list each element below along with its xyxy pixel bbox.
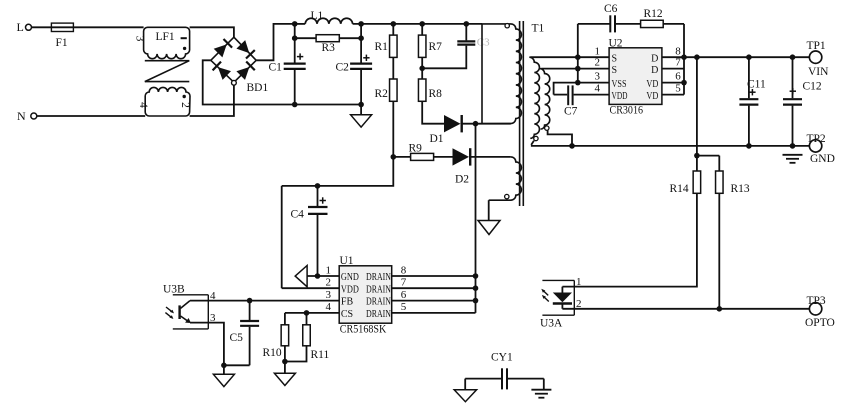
svg-text:R11: R11	[311, 349, 330, 361]
svg-text:DRAIN: DRAIN	[366, 309, 391, 320]
resistor R8	[418, 79, 442, 101]
ground U3B	[213, 374, 234, 386]
wire VDD vertical	[281, 186, 283, 288]
wire U1 FB line	[190, 300, 339, 302]
wire D2 cathode to aux winding	[470, 156, 510, 158]
op-amp U2 CR3016 box	[609, 37, 662, 116]
wire R13 bottom	[718, 193, 720, 308]
U2 pin 4 number	[595, 83, 601, 95]
U1 pin 6 number	[401, 289, 407, 301]
resistor R9	[393, 143, 452, 161]
bridge rectifier BD1 outline	[211, 37, 269, 94]
node VSS	[575, 80, 581, 86]
svg-text:2: 2	[595, 57, 601, 69]
wire CY1 left stub	[464, 379, 466, 390]
U1 pin 4 number	[326, 301, 332, 313]
svg-text:D: D	[651, 53, 658, 64]
node R14 top	[694, 153, 700, 159]
ground under C12	[783, 155, 803, 163]
wire top rail left	[295, 23, 306, 25]
earth CY1 right	[531, 390, 551, 398]
svg-text:R14: R14	[670, 183, 689, 195]
node R7 top	[419, 21, 425, 27]
U1 pin 2 number	[326, 277, 332, 289]
svg-text:FB: FB	[341, 297, 354, 308]
svg-text:TP2: TP2	[807, 133, 826, 145]
wire U1 VDD line	[282, 287, 340, 289]
svg-text:DRAIN: DRAIN	[366, 297, 391, 308]
wire U1 pin7 line	[392, 287, 476, 289]
capacitor C12	[783, 57, 822, 146]
U2 pin name S2	[612, 65, 618, 76]
svg-text:CY1: CY1	[491, 352, 513, 364]
node R3 right	[358, 35, 364, 41]
resistor R7	[418, 24, 442, 58]
wire U1 pin5 line	[392, 312, 476, 314]
wire R7-R8	[421, 57, 423, 79]
U1 pin name FB	[341, 297, 354, 308]
capacitor C4	[291, 186, 328, 276]
U2 pin name VD5	[646, 91, 658, 102]
svg-text:2: 2	[326, 277, 332, 289]
wire U3B emitter to ground	[190, 323, 224, 366]
svg-text:GND: GND	[810, 153, 835, 165]
bridge diode top-left	[214, 39, 232, 57]
U1 pin 5 number	[401, 301, 407, 313]
resistor R10	[263, 313, 289, 359]
svg-text:TP1: TP1	[807, 40, 826, 52]
svg-text:CR3016: CR3016	[610, 102, 644, 116]
wire bridge plus to top rail	[256, 24, 295, 60]
U2 pin name VSS	[612, 79, 627, 90]
svg-text:D1: D1	[430, 133, 444, 145]
terminal N	[17, 109, 37, 123]
U1 pin 8 number	[401, 264, 407, 276]
node C1 top	[292, 21, 298, 27]
U3A emit arrow 1	[541, 289, 548, 296]
U1 pin 7 number	[401, 277, 407, 289]
wire LF1 top to bridge AC1	[190, 27, 234, 37]
svg-text:R1: R1	[375, 41, 389, 53]
ground aux winding	[478, 221, 500, 235]
wire aux to ground	[488, 200, 490, 220]
wire R8 bottom to D1	[422, 101, 444, 123]
wire R14 to opto anode	[562, 193, 697, 286]
svg-text:4: 4	[595, 83, 601, 95]
node D tie	[681, 54, 687, 60]
svg-text:R7: R7	[429, 41, 443, 53]
U2 pin name D8	[651, 53, 658, 64]
wire secondary ground rail	[531, 145, 810, 147]
U3A pin 1 label	[576, 276, 582, 288]
U2 pin 8 number	[675, 45, 681, 57]
svg-text:C6: C6	[604, 3, 618, 15]
svg-text:C1: C1	[269, 62, 283, 74]
svg-text:C5: C5	[230, 332, 244, 344]
svg-text:U2: U2	[609, 37, 623, 49]
wire bridge minus to bottom rail	[203, 60, 295, 104]
node R3 left	[292, 35, 298, 41]
svg-text:C2: C2	[336, 62, 350, 74]
bridge AC2 node circle	[232, 80, 237, 85]
svg-text:R12: R12	[644, 8, 663, 20]
wire LF1 bottom to bridge AC2	[190, 85, 234, 116]
node C11 top	[746, 54, 752, 60]
wire opto cathode to TP3	[562, 308, 809, 310]
inductor LF1 bottom winding	[145, 87, 190, 116]
svg-text:U3B: U3B	[163, 283, 185, 295]
node U3B gnd	[221, 363, 227, 369]
svg-text:4: 4	[137, 102, 149, 108]
transformer T1 secondary outer winding	[529, 57, 539, 138]
svg-text:CS: CS	[341, 309, 353, 320]
U1 pin name DRAIN5	[366, 309, 391, 320]
ground R10-R11	[274, 373, 295, 385]
inductor L1	[305, 10, 352, 24]
node R7-C3 junction	[419, 66, 425, 72]
svg-text:C11: C11	[747, 79, 766, 91]
node C5 top	[247, 298, 253, 304]
wire C6 tie line	[577, 24, 579, 83]
wire CY1 right stub	[543, 379, 545, 390]
wire U1 GND line	[307, 275, 339, 277]
capacitor C11	[739, 57, 766, 146]
wire U1 pin6 line	[392, 300, 476, 302]
wire U1 CS line	[285, 312, 339, 314]
svg-text:4: 4	[210, 290, 216, 302]
test point TP1	[807, 40, 830, 78]
wire U2 pin2 line	[541, 68, 609, 70]
svg-text:R2: R2	[375, 88, 389, 100]
svg-text:5: 5	[401, 301, 407, 313]
wire U2 pin6 line	[662, 82, 684, 84]
bridge diode bottom-right	[236, 62, 254, 80]
node drain6	[473, 298, 479, 304]
svg-text:VIN: VIN	[808, 66, 829, 78]
U1 pin 3 number	[326, 289, 332, 301]
U3A emit arrow 2	[542, 295, 549, 302]
optocoupler U3A box	[540, 280, 574, 329]
wire secondary outer to gnd rail	[531, 141, 534, 145]
svg-text:C7: C7	[564, 105, 578, 117]
svg-text:OPTO: OPTO	[805, 317, 835, 329]
svg-text:C4: C4	[291, 209, 305, 221]
svg-text:R3: R3	[322, 42, 336, 54]
U1 pin name VDD	[341, 284, 359, 295]
U2 pin name VD6	[646, 79, 658, 90]
transformer T1 primary winding	[482, 24, 521, 124]
node C1 bottom	[292, 102, 298, 108]
svg-text:R8: R8	[429, 88, 443, 100]
node VIN-R14	[694, 54, 700, 60]
svg-text:3: 3	[133, 36, 145, 42]
node C4 top	[315, 183, 321, 189]
node C2 bottom	[358, 102, 364, 108]
diode D2	[453, 148, 471, 185]
wire R2 bottom to VDD rail	[282, 101, 394, 186]
LF1 core	[145, 61, 190, 82]
bridge diode bottom-left	[213, 62, 231, 80]
wire secondary inner to gnd rail	[548, 130, 572, 146]
svg-text:6: 6	[675, 71, 681, 83]
svg-text:F1: F1	[56, 37, 68, 49]
svg-text:VSS: VSS	[612, 79, 627, 90]
svg-text:DRAIN: DRAIN	[366, 284, 391, 295]
svg-text:TP3: TP3	[807, 295, 826, 307]
svg-text:8: 8	[401, 264, 407, 276]
test point TP2	[807, 133, 835, 165]
node C3 top	[464, 21, 470, 27]
svg-text:7: 7	[675, 57, 681, 69]
node inner winding-gnd rail	[569, 143, 575, 149]
svg-text:U1: U1	[340, 255, 354, 267]
U2 pin name S1	[612, 53, 618, 64]
wire VIN to R14	[696, 57, 698, 155]
svg-text:CR5168SK: CR5168SK	[340, 322, 387, 336]
wire R11 bottom	[285, 346, 307, 362]
node D1-primary junction	[473, 121, 479, 127]
U3B receive arrow 1	[166, 307, 174, 313]
wire drain bus	[475, 124, 477, 313]
svg-text:R13: R13	[731, 183, 750, 195]
wire VIN line	[662, 56, 810, 58]
capacitor C1	[269, 24, 306, 105]
wire U2 pin1 line	[530, 56, 609, 58]
ground CY1 left	[454, 390, 476, 402]
node VD tie	[681, 80, 687, 86]
node C11 bottom	[746, 143, 752, 149]
U3B pin 3 label	[210, 312, 216, 324]
svg-text:L: L	[17, 20, 24, 34]
U1 pin name DRAIN8	[366, 272, 391, 283]
resistor R14	[670, 156, 701, 195]
node R9 junction	[391, 154, 397, 160]
svg-text:VDD: VDD	[612, 91, 628, 102]
node C2 top	[358, 21, 364, 27]
svg-text:S: S	[612, 65, 618, 76]
U3A LED	[553, 287, 572, 309]
svg-text:S: S	[612, 53, 618, 64]
svg-text:2: 2	[576, 298, 582, 310]
secondary outer end circle	[534, 136, 538, 140]
U2 pin name D7	[651, 65, 658, 76]
node S2	[575, 66, 581, 72]
aux winding end circle	[505, 194, 509, 198]
wire U2 pin4 line	[554, 94, 610, 96]
wire N input	[37, 115, 145, 117]
U2 pin 3 number	[595, 71, 601, 83]
capacitor CY1	[465, 352, 544, 390]
wire bottom rail	[295, 104, 361, 106]
ground under C2	[351, 105, 372, 128]
resistor R13	[716, 156, 750, 195]
svg-text:VDD: VDD	[341, 284, 359, 295]
transformer T1 secondary inner winding	[540, 69, 550, 130]
svg-text:D: D	[651, 65, 658, 76]
node drain8	[473, 273, 479, 279]
U1 pin 1 number	[326, 264, 332, 276]
node R11 top	[304, 310, 310, 316]
node drain7	[473, 285, 479, 291]
resistor R3	[295, 35, 361, 54]
secondary inner end circle	[545, 126, 549, 130]
capacitor C5	[224, 301, 259, 366]
capacitor C7	[564, 85, 578, 117]
svg-text:3: 3	[326, 289, 332, 301]
svg-text:U3A: U3A	[540, 318, 563, 330]
optocoupler U3B box	[163, 283, 208, 329]
wire R10 bottom	[284, 346, 286, 373]
LF1 pin 4 label	[137, 102, 149, 108]
bridge diode top-right	[236, 40, 254, 58]
wire U2 pin7 line	[662, 68, 684, 70]
fuse F1	[51, 23, 73, 49]
wire L input	[32, 26, 144, 28]
svg-text:DRAIN: DRAIN	[366, 272, 391, 283]
U2 pin 5 number	[675, 83, 681, 95]
test point TP3	[805, 295, 835, 329]
wire U1 pin8 line	[392, 275, 476, 277]
node C4 bottom	[315, 273, 321, 279]
svg-text:7: 7	[401, 277, 407, 289]
svg-text:BD1: BD1	[247, 82, 269, 94]
resistor R11	[303, 313, 330, 361]
svg-text:6: 6	[401, 289, 407, 301]
wire R1-R2	[392, 57, 394, 79]
wire primary bottom lead	[482, 123, 511, 125]
svg-text:C3: C3	[477, 37, 490, 49]
svg-text:3: 3	[595, 71, 601, 83]
svg-text:VD: VD	[646, 91, 658, 102]
inductor LF1 top winding	[144, 27, 190, 58]
LF1 pin 2 label	[179, 102, 191, 108]
terminal L	[17, 20, 32, 34]
svg-text:LF1: LF1	[156, 31, 175, 43]
capacitor C6	[578, 3, 641, 32]
op-amp U1 CR5168SK box	[339, 255, 392, 336]
capacitor C2	[336, 24, 373, 105]
U2 pin name VDD	[612, 91, 628, 102]
wire U2 pin3 line	[554, 83, 610, 95]
U1 pin name DRAIN7	[366, 284, 391, 295]
resistor R2	[375, 79, 398, 101]
svg-text:T1: T1	[532, 23, 545, 35]
U2 pin 7 number	[675, 57, 681, 69]
svg-text:L1: L1	[311, 10, 324, 22]
U2 pin 6 number	[675, 71, 681, 83]
U3A pin 2 label	[576, 298, 582, 310]
U1 pin name DRAIN6	[366, 297, 391, 308]
U2 pin 2 number	[595, 57, 601, 69]
transformer T1 core	[520, 21, 545, 206]
resistor R12	[641, 8, 684, 57]
wire top rail	[353, 23, 482, 25]
node R10-R11	[282, 359, 288, 365]
svg-text:VD: VD	[646, 79, 658, 90]
diode D1	[430, 115, 462, 145]
svg-text:1: 1	[576, 276, 582, 288]
svg-text:2: 2	[179, 102, 191, 108]
svg-text:8: 8	[675, 45, 681, 57]
resistor R1	[375, 24, 398, 58]
svg-text:4: 4	[326, 301, 332, 313]
svg-text:N: N	[17, 109, 26, 123]
wire U3B gnd stub	[223, 365, 225, 374]
U1 pin name GND	[341, 272, 359, 283]
node C12 top	[790, 54, 796, 60]
LF1 pin 3 label	[133, 36, 145, 42]
node C12 bottom	[790, 143, 796, 149]
svg-text:1: 1	[326, 264, 332, 276]
capacitor C3	[422, 24, 490, 68]
svg-text:C12: C12	[803, 81, 822, 93]
node S1	[575, 54, 581, 60]
svg-text:R9: R9	[409, 143, 423, 155]
gnd return arrow	[295, 266, 307, 287]
U3B receive arrow 2	[165, 313, 173, 319]
svg-text:1: 1	[595, 45, 601, 57]
U2 pin 1 number	[595, 45, 601, 57]
transformer T1 auxiliary winding	[489, 157, 522, 200]
wire D-VD tie	[683, 57, 685, 94]
U3B pin 4 label	[210, 290, 216, 302]
primary start circle	[505, 24, 509, 28]
wire R14-R13 top	[697, 155, 719, 157]
wire U2 pin5 line	[662, 94, 684, 96]
svg-text:D2: D2	[455, 174, 469, 186]
svg-text:GND: GND	[341, 272, 359, 283]
wire D1 cathode	[462, 123, 482, 125]
svg-text:5: 5	[675, 83, 681, 95]
U1 pin name CS	[341, 309, 353, 320]
node R13-TP3	[717, 306, 723, 312]
node R1 top	[391, 21, 397, 27]
svg-text:R10: R10	[263, 347, 282, 359]
U3B phototransistor	[180, 301, 191, 323]
